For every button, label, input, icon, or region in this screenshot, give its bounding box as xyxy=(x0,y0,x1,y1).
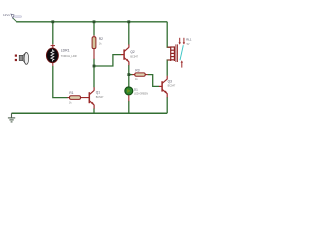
resistor R3 leads xyxy=(132,74,148,76)
svg-text:Q3: Q3 xyxy=(168,79,172,83)
svg-text:D1: D1 xyxy=(134,87,138,91)
LDR1 top pin xyxy=(52,44,54,48)
resistor R1 body xyxy=(70,96,81,100)
relay RL1 armature xyxy=(180,45,183,60)
junction node emitter-R3 xyxy=(127,73,130,76)
svg-text:1k: 1k xyxy=(69,100,72,104)
wire from terminal to top rail xyxy=(13,18,17,21)
resistor R2 leads xyxy=(93,35,95,59)
power terminal bar xyxy=(14,16,21,18)
svg-text:BC547: BC547 xyxy=(96,96,104,99)
LDR1 zigzag xyxy=(51,49,54,61)
relay RL1 coil pins xyxy=(167,47,171,60)
wire bottom ground rail xyxy=(12,112,168,114)
svg-text:R1: R1 xyxy=(69,91,73,95)
junction node rail-LDR xyxy=(51,20,54,23)
junction node rail-Q2 collector xyxy=(127,20,130,23)
svg-text:R3: R3 xyxy=(135,68,139,72)
LED D1 bottom pin xyxy=(128,95,130,101)
speaker LS1 body xyxy=(19,55,23,60)
svg-text:5V: 5V xyxy=(187,43,190,46)
relay RL1 contact NO xyxy=(183,38,185,43)
svg-text:LED-GREEN: LED-GREEN xyxy=(134,93,148,96)
transistor Q3 xyxy=(159,76,167,97)
relay RL1 coil xyxy=(171,46,175,61)
svg-text:R2: R2 xyxy=(99,37,103,41)
wire junction to Q2 base xyxy=(94,55,121,66)
relay RL1 core xyxy=(176,44,178,62)
wire LED bottom to ground rail xyxy=(128,101,130,113)
relay RL1 common pole xyxy=(181,62,183,68)
svg-text:TORCH_LDR: TORCH_LDR xyxy=(61,54,77,58)
svg-text:12Vs: 12Vs xyxy=(3,13,10,17)
transistor Q1 xyxy=(89,87,94,108)
svg-text:1k: 1k xyxy=(135,77,138,81)
svg-text:Q2: Q2 xyxy=(130,50,134,54)
svg-text:RL1: RL1 xyxy=(186,38,192,42)
svg-text:BC547: BC547 xyxy=(130,55,138,58)
wire top rail xyxy=(16,21,167,23)
svg-text:1k: 1k xyxy=(99,42,102,46)
wire R2 branch from rail xyxy=(93,22,95,36)
svg-text:LDR1: LDR1 xyxy=(61,49,70,53)
relay RL1 contact NC xyxy=(179,38,181,43)
svg-text:Q1: Q1 xyxy=(96,91,100,95)
resistor R1 leads xyxy=(67,97,89,99)
wire R2 bottom to junction and down to Q1 collector xyxy=(93,59,95,88)
wire Q2 emitter down through R3 junction to LED xyxy=(128,65,130,87)
LDR1 body xyxy=(46,48,58,63)
LDR1 bottom pin xyxy=(52,62,54,66)
wire Q1 emitter to ground rail xyxy=(93,108,95,113)
LED D1 body xyxy=(125,87,133,95)
junction node rail-R2 xyxy=(93,20,96,23)
wire R3 right to Q3 base xyxy=(148,75,160,87)
wire R3 branch left xyxy=(129,74,133,76)
wire Q2 collector to rail xyxy=(128,22,130,45)
LED D1 arrow mark xyxy=(127,89,130,92)
svg-text:BC547: BC547 xyxy=(168,85,176,88)
speaker LS1 pins xyxy=(15,55,17,57)
wire LDR bottom down to R1 xyxy=(53,66,68,98)
ground xyxy=(8,113,15,122)
wire LDR branch from rail xyxy=(52,22,54,45)
resistor R2 body xyxy=(92,37,96,49)
wire right spine to relay coil top xyxy=(167,22,171,47)
wire relay coil bottom to Q3 collector xyxy=(167,60,171,76)
transistor Q2 xyxy=(121,44,129,65)
wire Q3 emitter to ground rail xyxy=(166,97,168,113)
power terminal arrow symbol xyxy=(11,14,14,18)
resistor R3 body xyxy=(135,73,145,76)
junction node R2-Q2 base xyxy=(93,65,96,68)
